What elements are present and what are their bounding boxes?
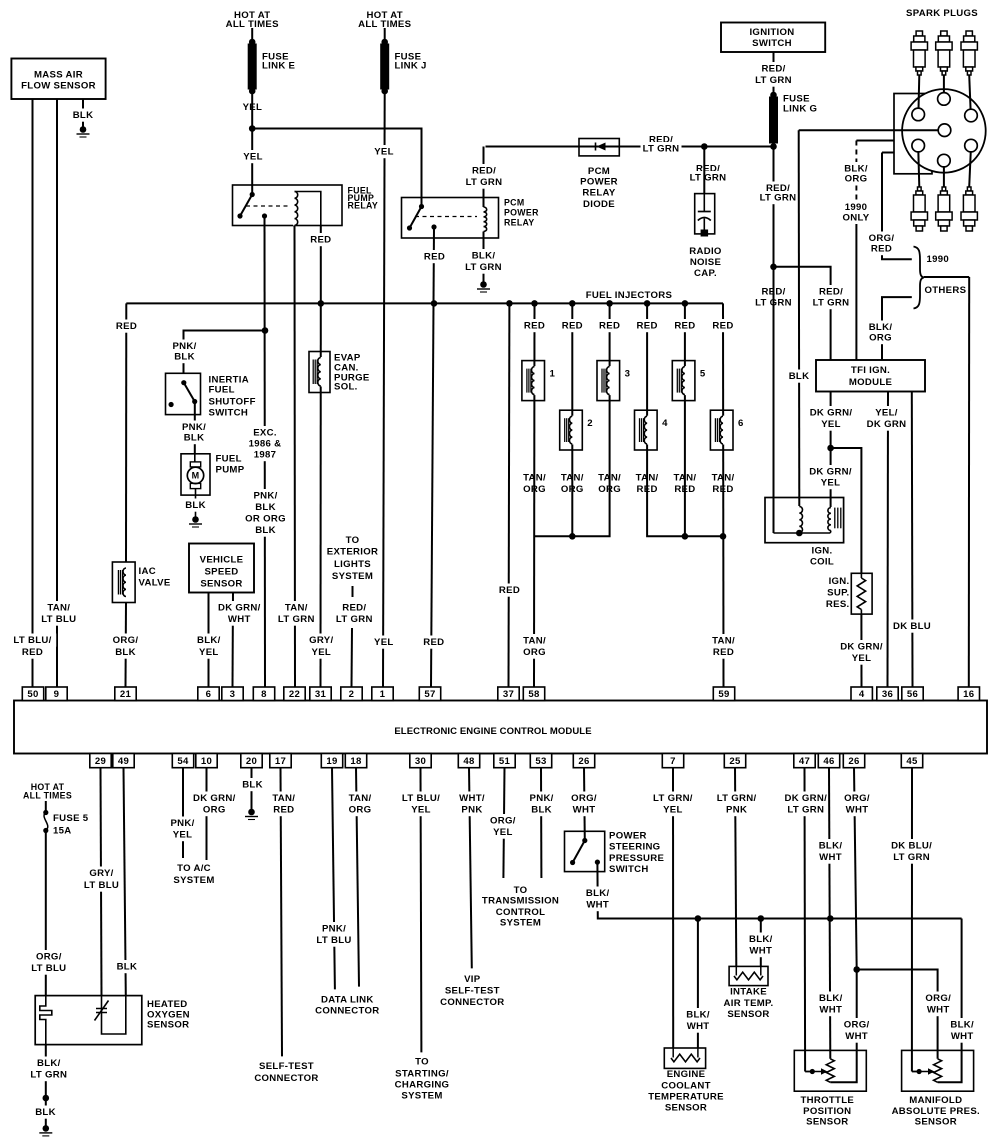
svg-text:37: 37 [503,689,514,700]
svg-text:PUMP: PUMP [216,465,245,476]
spark plug top 1 [911,31,927,75]
svg-text:RED: RED [273,805,294,816]
pin 1 (top) [372,687,393,701]
fuel injector 1 [522,361,556,401]
fuel injector 3 [597,361,630,401]
wire cap to plug4 [918,146,919,187]
spark plug bottom 1 [911,187,927,231]
svg-text:MASS AIR: MASS AIR [34,70,83,81]
svg-text:LINK E: LINK E [262,61,296,72]
spark plug bottom 3 [961,187,977,231]
wire plug3 to cap [969,75,971,115]
node inertia switch branch [262,327,269,334]
label ORG/WHT TPS [842,1018,870,1043]
wire BLK/WHT PSPS to ground bus [597,862,961,918]
label RED injector 4 [636,319,658,332]
svg-text:WHT: WHT [228,614,251,625]
wire LT GRN/YEL pin 7 to ECT [672,768,674,1049]
svg-text:OR ORG: OR ORG [245,514,286,525]
label SELF-TEST CONNECTOR [254,1061,318,1084]
label MANIFOLD ABSOLUTE PRES. SENSOR [892,1095,980,1128]
svg-text:MODULE: MODULE [849,377,893,388]
svg-text:BLK: BLK [174,352,195,363]
pin 47 (bottom #15) [794,754,815,768]
label BLK/LT GRN [463,249,504,274]
pin 8 (top) [253,687,274,701]
label BLK/WHT TPS [817,992,845,1017]
wire DK GRN/YEL TFI to ign coil [830,392,832,508]
label TAN/RED pin 59 [709,634,737,659]
label PNK/BLK above fuel pump [180,421,208,445]
svg-text:RELAY: RELAY [348,200,379,210]
svg-text:LT GRN: LT GRN [690,173,727,184]
svg-text:YEL: YEL [173,830,193,841]
wire RED fuel pump relay coil to bus [320,225,322,303]
svg-text:56: 56 [907,689,918,700]
label TAN/RED injector 4 [633,471,661,496]
svg-text:1987: 1987 [254,450,277,461]
label HEATED OXYGEN SENSOR [147,999,190,1031]
node inj merge 5 [682,533,689,540]
svg-text:ABSOLUTE PRES.: ABSOLUTE PRES. [892,1106,980,1117]
label OTHERS [925,285,967,296]
spark plug top 2 [936,31,952,75]
svg-text:BLK: BLK [789,371,810,382]
wire MAF signal to pin 9 [56,99,58,687]
svg-text:5: 5 [700,369,706,380]
label RED/LT GRN pin 2 [334,601,375,626]
wire ORG/BLK IAC to pin 21 [125,603,128,688]
svg-text:YEL: YEL [493,827,513,838]
svg-text:VIP: VIP [464,974,481,985]
svg-text:CONNECTOR: CONNECTOR [254,1073,318,1084]
svg-text:DK GRN: DK GRN [867,419,907,430]
wire coil secondary to distributor [799,129,938,131]
label YEL above fuel pump relay [242,150,264,163]
svg-text:26: 26 [848,756,859,767]
svg-text:BLK: BLK [184,433,205,444]
node bus-inj2 [569,300,576,307]
svg-text:BLK: BLK [115,647,136,658]
svg-text:LT GRN: LT GRN [893,852,930,863]
svg-text:3: 3 [625,369,631,380]
distributor terminal lower-left [912,139,925,152]
svg-text:YEL: YEL [411,805,431,816]
svg-text:ONLY: ONLY [843,213,870,224]
label RED/LT GRN diode output [641,133,682,155]
svg-text:LT BLU: LT BLU [84,880,119,891]
wire cap to plug6 [969,146,971,187]
svg-text:YEL: YEL [821,478,841,489]
svg-text:RES.: RES. [826,599,850,610]
svg-text:TAN/: TAN/ [285,603,308,614]
svg-text:2: 2 [587,418,593,429]
svg-text:ENGINE: ENGINE [667,1069,706,1080]
label FUSE LINK J [395,52,427,72]
wire plug1 to cap [917,75,920,114]
label EXC. 1986 & 1987 [245,426,286,461]
svg-text:SPARK PLUGS: SPARK PLUGS [906,8,978,19]
wire PNK/YEL pin 54 to A/C [182,768,184,858]
svg-text:SENSOR: SENSOR [665,1102,707,1113]
node bus-inj3 [606,300,613,307]
wire hot feed to fuse link E [251,28,253,42]
wire RED/LT GRN fuse link G down [773,144,775,267]
label TAN/ORG injector 2 [558,471,586,496]
svg-text:46: 46 [823,756,834,767]
wire plug2 to cap [943,75,945,98]
node fuse G / diode junction [770,143,777,150]
label BLK pin 20 [242,778,264,791]
label DK GRN/YEL under TFI [807,406,854,431]
label FUSE 5 15A [53,813,89,837]
label HOT AT ALL TIMES (fuse 5) [23,782,72,801]
svg-text:BLK: BLK [117,962,138,973]
node bus-pin57 [431,300,438,307]
svg-text:SENSOR: SENSOR [915,1117,957,1128]
wire YEL fuse link J to pin 1 [383,91,385,687]
svg-text:WHT/: WHT/ [459,793,485,804]
node bus-pin37 [506,300,513,307]
pin 2 (top) [341,687,362,701]
svg-text:ORG: ORG [845,174,868,185]
label DK GRN/LT GRN [782,792,829,817]
svg-text:LT GRN: LT GRN [755,75,792,86]
svg-text:BLK: BLK [255,502,276,513]
svg-text:ORG: ORG [869,333,892,344]
svg-text:LT GRN: LT GRN [787,805,824,816]
svg-text:ORG/: ORG/ [925,993,951,1004]
svg-text:TEMPERATURE: TEMPERATURE [648,1091,724,1102]
svg-text:18: 18 [350,756,362,767]
svg-text:BLK: BLK [73,110,94,121]
label YEL pin 1 [373,636,395,649]
svg-text:PCM: PCM [504,197,524,207]
pin 36 (top) [877,687,898,701]
label RED/LT GRN PCM relay coil [464,164,505,189]
svg-text:SENSOR: SENSOR [147,1020,189,1031]
svg-text:PNK/: PNK/ [253,491,277,502]
pin 30 (bottom #8) [410,754,431,768]
wire LT BLU/YEL pin 30 to starting system [420,768,423,1053]
svg-text:RED: RED [116,321,137,332]
pin 54 (bottom #2) [172,754,193,768]
svg-text:19: 19 [326,756,337,767]
label IAC VALVE [139,566,171,589]
svg-text:54: 54 [177,756,189,767]
label RED injector 5 [674,319,696,332]
svg-text:LT GRN: LT GRN [465,262,502,273]
wire PNK/BLK fuel pump relay to pin 8 [264,216,267,687]
wire BLK/WHT pin 46 to TPS [829,768,830,1059]
svg-text:SELF-TEST: SELF-TEST [259,1061,314,1072]
wire ORG/WHT branch to MAP [857,970,938,1059]
label BLK/ORG others [866,321,894,345]
svg-text:WHT: WHT [951,1031,974,1042]
pcm power relay diode D1 [579,139,619,211]
svg-text:COIL: COIL [810,557,834,568]
label TAN/RED pin 17 [270,792,298,817]
label TAN/RED injector 5 [671,471,699,496]
svg-text:LT GRN: LT GRN [643,144,680,155]
pin 49 (bottom #1) [113,754,134,768]
svg-text:31: 31 [315,689,327,700]
wire injector 1 to pin 58 [533,303,536,687]
svg-text:26: 26 [578,756,589,767]
label LT GRN/YEL [649,792,696,817]
svg-text:BLK: BLK [531,805,552,816]
label FUSE LINK E [262,52,296,72]
svg-text:1990: 1990 [927,254,950,265]
svg-text:TAN/: TAN/ [712,636,735,647]
svg-text:SOL.: SOL. [334,382,358,393]
label RED fuel pump relay output [310,233,332,246]
label BLK ign coil [788,370,810,383]
svg-text:CHARGING: CHARGING [395,1080,450,1091]
svg-text:DK GRN/: DK GRN/ [784,793,827,804]
svg-text:DK GRN/: DK GRN/ [810,408,853,419]
ignition coil T1 [765,498,844,543]
label BLK/WHT PSPS [584,887,612,912]
pin 53 (bottom #11) [530,754,551,768]
ignition suppression resistor R1 [851,573,872,614]
node bus-inj4 [644,300,651,307]
svg-text:ELECTRONIC ENGINE CONTROL MODU: ELECTRONIC ENGINE CONTROL MODULE [394,726,591,737]
svg-text:IGN.: IGN. [812,546,833,557]
svg-text:BLK/: BLK/ [197,635,221,646]
inertia fuel shutoff switch [166,373,201,414]
fuel pump relay K1 [233,185,343,226]
label TAN/ORG injector 1 [520,471,548,496]
svg-text:1: 1 [380,689,386,700]
label RED pin 37 wire [499,584,521,597]
wire ORG/WHT pin 26 to PSPS [583,768,586,841]
svg-text:LT GRN: LT GRN [760,193,797,204]
pin 22 (top) [284,687,305,701]
label YEL below fuse link E [241,101,263,114]
svg-text:WHT: WHT [819,1005,842,1016]
wire BLK/LT GRN O2 sensor ground [45,1045,47,1126]
wire branch to inertia switch [184,331,266,374]
svg-text:RED: RED [712,321,733,332]
svg-text:LINK G: LINK G [783,104,817,115]
label SPARK PLUGS [906,8,978,19]
svg-text:SYSTEM: SYSTEM [332,571,373,582]
svg-text:BLK/: BLK/ [37,1058,61,1069]
wire RED supply bus [126,302,723,304]
wire cap to plug5 [943,161,945,187]
distributor housing [894,94,932,174]
svg-text:ORG/: ORG/ [844,1020,870,1031]
label ORG/WHT pin 26 second [843,792,871,817]
pin 51 (bottom #10) [494,754,515,768]
ground pin 20 [245,809,258,820]
wire ignition switch to fuse link G [773,52,775,95]
svg-text:SYSTEM: SYSTEM [500,918,541,929]
pin 10 (bottom #3) [196,754,217,768]
label TAN/RED injector 6 [709,471,737,496]
svg-text:RED/: RED/ [342,603,366,614]
svg-text:LT GRN: LT GRN [813,298,850,309]
svg-text:WHT: WHT [846,805,869,816]
svg-text:RED: RED [22,647,43,658]
pin 45 (bottom #18) [901,754,922,768]
svg-text:LT GRN: LT GRN [466,177,503,188]
wire DK BLU TFI to pin 56 [911,392,914,688]
throttle position sensor [794,1050,866,1091]
svg-text:BLK/: BLK/ [950,1020,974,1031]
svg-text:LT BLU: LT BLU [316,935,351,946]
pin 57 (top) [419,687,440,701]
pin 16 (top) [958,687,979,701]
label HOT AT ALL TIMES (fuse link E) [226,10,279,30]
label RED/LT GRN tfi-left [753,285,794,309]
pin 59 (top) [713,687,734,701]
wire MAF signal to pin 50 [32,99,34,687]
pin 37 (top) [498,687,519,701]
label BLK pin 49 wire [116,960,138,973]
svg-text:6: 6 [206,689,212,700]
wire VSS to pin 6 [208,593,210,688]
svg-text:17: 17 [275,756,286,767]
label LT BLU/RED pin 50 [9,634,56,659]
pcm power relay K2 [402,198,499,239]
svg-text:TO: TO [415,1057,429,1068]
svg-text:COOLANT: COOLANT [661,1080,711,1091]
wire injector 3 [535,303,610,536]
svg-text:ORG: ORG [203,805,226,816]
pin 56 (top) [902,687,923,701]
wire GRY/YEL evap solenoid to pin 31 [320,303,322,687]
svg-text:YEL: YEL [852,653,872,664]
svg-text:BLK: BLK [242,780,263,791]
svg-text:LT BLU/: LT BLU/ [402,793,440,804]
pin 4 (top) [851,687,872,701]
svg-text:45: 45 [906,756,918,767]
wire ORG/LT BLU fuse 5 to O2 sensor [45,831,47,996]
label THROTTLE POSITION SENSOR [801,1095,855,1128]
svg-text:POWER: POWER [580,177,618,188]
svg-text:BLK/: BLK/ [586,888,610,899]
svg-text:RADIO: RADIO [689,246,722,257]
label DK GRN/WHT pin 3 [216,601,263,626]
pin 19 (bottom #6) [321,754,342,768]
svg-text:THROTTLE: THROTTLE [801,1095,855,1106]
distributor terminal bottom [938,154,951,167]
wire diode line PCM relay coil to fuse link G [486,146,774,148]
svg-text:RED: RED [871,244,892,255]
wire YEL fuse link E to fuel pump relay [251,91,253,195]
label PNK/BLK pin 53 [527,792,555,817]
label RED/LT GRN tfi-right [811,285,852,309]
svg-text:VALVE: VALVE [139,578,171,589]
power steering pressure switch S1 [565,831,605,871]
label VIP SELF-TEST CONNECTOR [440,974,504,1008]
svg-text:SYSTEM: SYSTEM [173,875,214,886]
label RED pin 57 [423,636,445,649]
svg-text:TFI IGN.: TFI IGN. [851,365,890,376]
label ENGINE COOLANT TEMPERATURE SENSOR [648,1069,724,1113]
svg-text:PNK/: PNK/ [530,793,554,804]
svg-text:WHT: WHT [687,1021,710,1032]
svg-text:FUSE 5: FUSE 5 [53,813,89,824]
svg-text:TO A/C: TO A/C [177,863,211,874]
svg-text:FLOW SENSOR: FLOW SENSOR [21,81,96,92]
wire injector 6 to pin 59 [722,303,725,687]
svg-text:57: 57 [424,689,435,700]
svg-text:PCM: PCM [588,166,610,177]
iac valve [112,562,135,603]
svg-text:BLK: BLK [35,1107,56,1118]
wire BLK/ORG 1990 only (dashed) [856,141,894,225]
label RED injector 3 [599,319,621,332]
label RED/LT GRN below fuse link G [758,182,799,205]
pin 20 (bottom #4) [241,754,262,768]
label DK BLU [892,620,933,633]
wire YEL/DK GRN TFI to pin 36 [887,392,890,688]
svg-text:1: 1 [550,369,556,380]
svg-text:OTHERS: OTHERS [925,285,967,296]
wire BLK/LT GRN PCM relay coil ground [483,232,485,283]
svg-text:ORG: ORG [349,805,372,816]
svg-text:MANIFOLD: MANIFOLD [909,1095,962,1106]
svg-text:DK GRN/: DK GRN/ [218,603,261,614]
svg-text:YEL: YEL [199,647,219,658]
node inj merge 2 [569,533,576,540]
svg-text:ORG/: ORG/ [571,793,597,804]
svg-text:20: 20 [246,756,257,767]
wire BLK pin 20 ground [251,768,253,810]
svg-text:YEL: YEL [374,637,394,648]
svg-text:SENSOR: SENSOR [806,1117,848,1128]
svg-text:49: 49 [118,756,129,767]
svg-text:7: 7 [670,756,676,767]
svg-text:TRANSMISSION: TRANSMISSION [482,896,559,907]
label RED injector 1 [524,319,546,332]
label RED injector 2 [561,319,583,332]
wire BLK/WHT bus to MAP [938,919,962,1083]
wire injector 4 [647,303,723,536]
label BLK O2 ground [35,1106,57,1119]
svg-text:ALL TIMES: ALL TIMES [23,790,72,800]
pin 21 (top) [115,687,136,701]
svg-text:LT BLU: LT BLU [41,614,76,625]
label IGN. COIL [810,546,834,568]
svg-text:59: 59 [718,689,729,700]
label RED injector 6 [712,319,734,332]
label GRY/LT BLU [81,867,122,892]
radio noise capacitor [695,194,715,237]
wire TAN/LT GRN relay coil to pin 22 [294,225,297,687]
node bus-inj5 [682,300,689,307]
svg-text:2: 2 [349,689,355,700]
label EVAP CAN. PURGE SOL. [334,353,370,393]
node radio noise cap tap [701,143,708,150]
label RED bus left [116,320,138,333]
svg-text:STEERING: STEERING [609,842,660,853]
label RADIO NOISE CAP. [689,246,722,279]
wire injector 5 [684,303,686,536]
node bus-inj1 [531,300,538,307]
svg-text:POWER: POWER [504,207,539,217]
svg-text:53: 53 [535,756,546,767]
svg-text:RED: RED [599,321,620,332]
wire BLK/WHT to ECT [697,919,699,1049]
wire VSS to pin 3 [232,593,235,688]
wire LT GRN/PNK pin 25 to IAT [735,768,736,967]
pin 7 (bottom #13) [662,754,683,768]
wire DK BLU/LT GRN pin 45 to MAP [911,768,913,1072]
